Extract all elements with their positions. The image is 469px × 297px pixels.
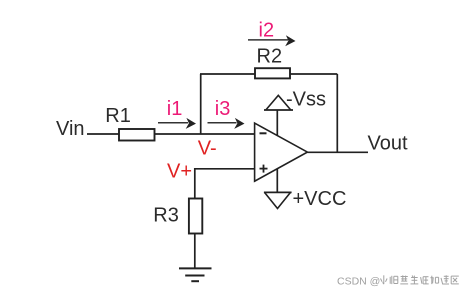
svg-text:CSDN @: CSDN @ <box>337 276 380 288</box>
svg-text:V-: V- <box>198 138 217 160</box>
power symbol -Vss <box>264 95 293 110</box>
svg-text:R1: R1 <box>105 105 131 127</box>
wire Vin lead <box>87 133 119 135</box>
watermark CSDN <box>337 275 459 287</box>
wire feedback top right segment <box>290 73 337 75</box>
resistor R3 <box>189 199 202 234</box>
wire feedback top left segment <box>200 73 255 75</box>
svg-text:Vin: Vin <box>56 118 85 140</box>
svg-text:V+: V+ <box>167 161 192 183</box>
svg-text:R2: R2 <box>257 46 283 68</box>
resistor R1 <box>119 129 155 141</box>
arrow i3 <box>208 118 245 129</box>
op-amp non-inverting pin mark <box>260 165 268 173</box>
arrow i1 <box>158 118 196 129</box>
wire R1 to op-amp inverting input <box>155 133 255 135</box>
wire V+ vertical to R3 <box>194 168 196 199</box>
wire V+ to non-inverting input <box>195 168 255 170</box>
svg-text:i2: i2 <box>259 19 275 41</box>
power symbol +VCC <box>264 192 292 208</box>
arrow i2 <box>248 35 296 46</box>
svg-text:R3: R3 <box>153 205 179 227</box>
svg-text:i3: i3 <box>215 98 231 120</box>
resistor R2 <box>255 68 290 78</box>
op-amp inverting pin mark <box>260 132 267 134</box>
svg-text:-Vss: -Vss <box>286 89 326 111</box>
wire output <box>308 151 369 153</box>
ground <box>179 268 212 281</box>
op-amp U1 <box>255 123 308 181</box>
svg-text:Vout: Vout <box>368 133 408 155</box>
wire positive supply stem <box>276 110 278 136</box>
wire feedback left vertical <box>200 74 202 134</box>
wire negative supply stem <box>276 169 278 193</box>
svg-text:i1: i1 <box>167 98 183 120</box>
wire R3 to ground <box>194 234 196 269</box>
svg-text:+VCC: +VCC <box>293 188 347 210</box>
wire feedback right vertical <box>336 74 338 152</box>
